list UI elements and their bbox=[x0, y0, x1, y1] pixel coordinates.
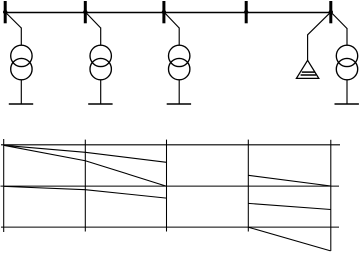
wire TR4 lower lead bbox=[346, 80, 348, 104]
transformer TR3 primary winding bbox=[169, 45, 190, 66]
grid vertical axis V4 bbox=[247, 140, 249, 232]
wire TR1 lower lead bbox=[20, 80, 22, 104]
characteristic curve C2 lower fan bbox=[4, 145, 167, 186]
transformer TR3 secondary winding bbox=[169, 58, 190, 79]
node dot T2 bbox=[83, 10, 87, 14]
node dot T1 bbox=[3, 10, 7, 14]
wire feeder 1 vertical bbox=[20, 28, 22, 46]
wire feeder 4 diagonal bbox=[331, 13, 347, 29]
wire feeder 2 diagonal bbox=[86, 13, 101, 28]
grid horizontal top bbox=[1, 144, 340, 146]
terminal tick T5 bbox=[329, 1, 332, 23]
transformer TR4 primary winding bbox=[336, 45, 357, 66]
terminal tick T1 bbox=[4, 1, 7, 23]
grid horizontal bottom bbox=[1, 226, 339, 228]
wire earthing branch diagonal bbox=[308, 13, 330, 35]
wire feeder 1 diagonal bbox=[6, 13, 21, 28]
load terminal bar TR3 bbox=[167, 103, 191, 105]
terminal tick T4 bbox=[245, 1, 248, 23]
characteristic curve C1 upper fan bbox=[4, 145, 167, 162]
load terminal bar TR1 bbox=[9, 103, 33, 105]
node dot T3 bbox=[162, 10, 166, 14]
grid vertical axis V3 bbox=[166, 140, 168, 232]
transformer TR1 secondary winding bbox=[11, 58, 32, 79]
wire feeder 4 vertical bbox=[346, 28, 348, 45]
transformer TR2 secondary winding bbox=[90, 58, 111, 79]
terminal tick T3 bbox=[162, 1, 165, 23]
wire feeder 3 vertical bbox=[178, 28, 180, 46]
grid vertical axis V2 bbox=[84, 140, 86, 232]
transformer TR1 primary winding bbox=[11, 45, 32, 66]
earthing symbol inner bar upper bbox=[302, 71, 315, 73]
characteristic curve C6 bbox=[248, 227, 330, 251]
node dot T4 bbox=[244, 10, 248, 14]
wire TR3 lower lead bbox=[178, 80, 180, 104]
characteristic curve C5 bbox=[248, 203, 330, 209]
characteristic curve C4 bbox=[248, 175, 330, 186]
wire TR2 lower lead bbox=[100, 80, 102, 104]
busbar main line bbox=[5, 12, 331, 14]
grid vertical axis V5 bbox=[330, 140, 332, 251]
earthing symbol inner bar lower bbox=[301, 74, 317, 76]
node dot T5 bbox=[329, 10, 333, 14]
transformer TR4 secondary winding bbox=[336, 58, 357, 79]
grid vertical axis V1 bbox=[3, 139, 5, 232]
terminal tick T2 bbox=[84, 1, 87, 23]
grid horizontal middle bbox=[1, 185, 340, 187]
wire feeder 3 diagonal bbox=[165, 13, 180, 28]
characteristic curve C3 below middle bbox=[4, 186, 167, 198]
load terminal bar TR4 bbox=[335, 103, 359, 105]
wire feeder 2 vertical bbox=[100, 28, 102, 46]
transformer TR2 primary winding bbox=[90, 45, 111, 66]
wire earthing branch vertical bbox=[307, 35, 309, 61]
load terminal bar TR2 bbox=[88, 103, 112, 105]
earthing symbol triangle bbox=[296, 60, 318, 78]
